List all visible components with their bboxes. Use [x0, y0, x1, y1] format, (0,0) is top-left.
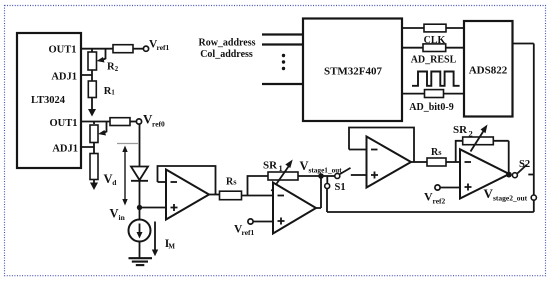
- wire Row_address bus: [262, 33, 303, 35]
- wire R1 bottom with arrow: [88, 98, 96, 117]
- label CLK: [424, 35, 446, 46]
- svg-text:in: in: [119, 213, 126, 222]
- svg-text:S1: S1: [335, 182, 346, 193]
- wire S1 lower stub: [326, 176, 328, 183]
- wire AD_bit0-9: [402, 93, 464, 95]
- op-amp A4 stage2: [460, 149, 509, 198]
- svg-text:ref2: ref2: [433, 196, 446, 205]
- svg-text:OUT1: OUT1: [48, 44, 76, 55]
- ground: [129, 258, 153, 265]
- node bypass terminal: [531, 195, 536, 200]
- op-amp A2 stage1: [273, 183, 316, 234]
- svg-text:STM32F407: STM32F407: [324, 66, 383, 78]
- wire A3 feedback loop: [349, 128, 414, 163]
- wire SR2 feedback left: [456, 141, 463, 162]
- svg-text:R: R: [107, 62, 115, 73]
- wire CLK: [402, 27, 464, 29]
- adc ADS822: [464, 21, 513, 117]
- wire R2 top branch: [91, 49, 93, 52]
- svg-text:V: V: [110, 206, 119, 220]
- potentiometer second: [90, 125, 98, 143]
- wire address bus third: [262, 83, 303, 85]
- label AD_RESL: [411, 55, 457, 66]
- wire chain bottom arrow: [90, 180, 98, 191]
- wire A1 feedback loop: [158, 166, 216, 195]
- current source IM: [129, 220, 151, 242]
- label Rs second: [431, 147, 442, 158]
- wire bypass bottom: [327, 211, 534, 213]
- resistor AD_RESL: [423, 44, 446, 52]
- wire A3 inverting input: [349, 149, 367, 151]
- svg-text:V: V: [300, 159, 309, 173]
- svg-text:M: M: [168, 243, 175, 251]
- measure arrow Vd: [117, 144, 138, 206]
- svg-text:SR: SR: [453, 124, 468, 136]
- wire Vin to op-amp: [140, 207, 167, 209]
- svg-text:Col_address: Col_address: [200, 49, 253, 60]
- svg-text:S2: S2: [519, 159, 530, 170]
- label R1: [104, 86, 116, 97]
- potentiometer SR1: [268, 160, 298, 192]
- label Vstage1_out: [300, 159, 343, 175]
- svg-text:s: s: [438, 147, 442, 157]
- svg-text:LT3024: LT3024: [31, 95, 66, 106]
- wire ADJ1 second pin: [81, 142, 94, 154]
- wire bypass down: [326, 189, 328, 213]
- wire A3 output: [411, 161, 427, 163]
- svg-text:ref0: ref0: [152, 119, 165, 128]
- resistor Rs first: [220, 191, 242, 200]
- regulator U1 LT3024: [17, 33, 81, 168]
- label Vref1 bottom: [234, 224, 255, 238]
- wire OUT1 top pin: [81, 48, 113, 50]
- label SR2: [453, 124, 473, 139]
- svg-text:ADS822: ADS822: [469, 65, 508, 77]
- wire to Vref0 terminal: [130, 121, 136, 123]
- wire SR2 right down to output: [493, 141, 508, 174]
- svg-text:d: d: [112, 178, 117, 187]
- wire S1 to A3 plus: [351, 174, 367, 176]
- svg-text:2: 2: [469, 129, 473, 139]
- wire SR1 feedback left: [248, 176, 269, 196]
- svg-text:2: 2: [115, 66, 119, 73]
- wire AD_RESL: [402, 47, 464, 49]
- mcu STM32F407: [303, 19, 402, 122]
- switch S2: [512, 165, 527, 178]
- op-amp A1 buffer: [166, 170, 209, 220]
- label Vd: [104, 172, 118, 187]
- switch S1: [323, 168, 350, 179]
- wire ADC feed vertical: [513, 44, 534, 196]
- node Vref1 terminal: [143, 46, 148, 51]
- resistor CLK: [424, 24, 446, 32]
- svg-text:V: V: [484, 186, 494, 201]
- svg-text:ref1: ref1: [157, 43, 170, 52]
- node Vstage2_out: [506, 172, 512, 178]
- wire A2 output up: [316, 176, 321, 208]
- wire Rs to A2 input: [242, 195, 274, 197]
- label Vin: [110, 206, 126, 222]
- label S1: [335, 182, 346, 193]
- wire A1 inverting input: [158, 181, 167, 183]
- node Vin junction: [137, 205, 142, 210]
- wire diode to Vin node: [139, 181, 141, 220]
- potentiometer SR2: [463, 125, 494, 152]
- node Vref1 bottom terminal: [248, 219, 253, 224]
- resistor to Vref0: [110, 118, 130, 126]
- node S1 lower contact: [325, 184, 330, 189]
- wire pot2 wiper: [98, 122, 107, 136]
- label SR1: [263, 160, 283, 174]
- wire OUT1 second pin: [81, 121, 110, 123]
- node Vref2 terminal: [435, 185, 440, 190]
- waveform clock pulses: [412, 72, 460, 86]
- label Vstage2_out: [484, 186, 528, 202]
- label Vref0: [143, 112, 165, 129]
- wire Rs2 to A4 input: [446, 161, 460, 163]
- wire S2 right stub: [528, 174, 534, 176]
- svg-text:s: s: [233, 177, 237, 187]
- op-amp A3 buffer2: [367, 137, 412, 188]
- wire pot2 top branch: [93, 122, 95, 125]
- label Vref2: [424, 190, 446, 206]
- arrow IM: [152, 222, 158, 257]
- wire Col_address bus: [262, 43, 303, 45]
- svg-text:ref1: ref1: [242, 228, 255, 237]
- svg-text:ADJ1: ADJ1: [52, 143, 78, 154]
- svg-text:V: V: [104, 172, 113, 186]
- svg-text:AD_RESL: AD_RESL: [411, 55, 457, 66]
- wire source to ground: [139, 242, 141, 259]
- svg-text:stage2_out: stage2_out: [493, 193, 528, 202]
- svg-text:SR: SR: [263, 160, 278, 172]
- bus dots: [282, 54, 285, 70]
- wire Vref1 to A2 plus: [253, 221, 273, 223]
- label IM: [165, 238, 176, 251]
- resistor Vd chain: [90, 154, 98, 180]
- label Vref1: [149, 39, 170, 53]
- label R2: [107, 62, 119, 73]
- svg-text:1: 1: [111, 89, 115, 96]
- resistor AD_bit0-9: [425, 90, 444, 98]
- svg-text:1: 1: [279, 163, 283, 173]
- label Rs first: [226, 177, 237, 188]
- svg-text:Row_address: Row_address: [198, 38, 255, 49]
- svg-text:AD_bit0-9: AD_bit0-9: [409, 102, 453, 113]
- svg-text:ADJ1: ADJ1: [51, 71, 77, 82]
- wire R2 wiper: [97, 49, 106, 63]
- label AD_bit0-9: [409, 102, 453, 113]
- node Vstage1_out: [318, 173, 324, 179]
- label Col_address: [200, 49, 253, 60]
- wire bypass terminal stub: [533, 200, 535, 212]
- label Row_address: [198, 38, 255, 49]
- wire SR1 to output node: [298, 175, 321, 177]
- wire Vref0 down to diode: [139, 124, 141, 166]
- wire ADJ1 top pin: [81, 70, 92, 81]
- resistor R1: [88, 81, 96, 98]
- diode D1: [131, 167, 148, 181]
- node Vref0 terminal: [136, 119, 141, 124]
- resistor Rs second: [427, 158, 446, 166]
- wire Vref2 to A4 plus: [440, 187, 460, 189]
- potentiometer R2: [88, 52, 97, 70]
- label S2: [519, 159, 530, 170]
- wire A1 output: [209, 194, 220, 196]
- resistor to Vref1: [113, 45, 133, 53]
- wire to Vref1 terminal: [133, 48, 143, 50]
- svg-text:OUT1: OUT1: [49, 118, 77, 129]
